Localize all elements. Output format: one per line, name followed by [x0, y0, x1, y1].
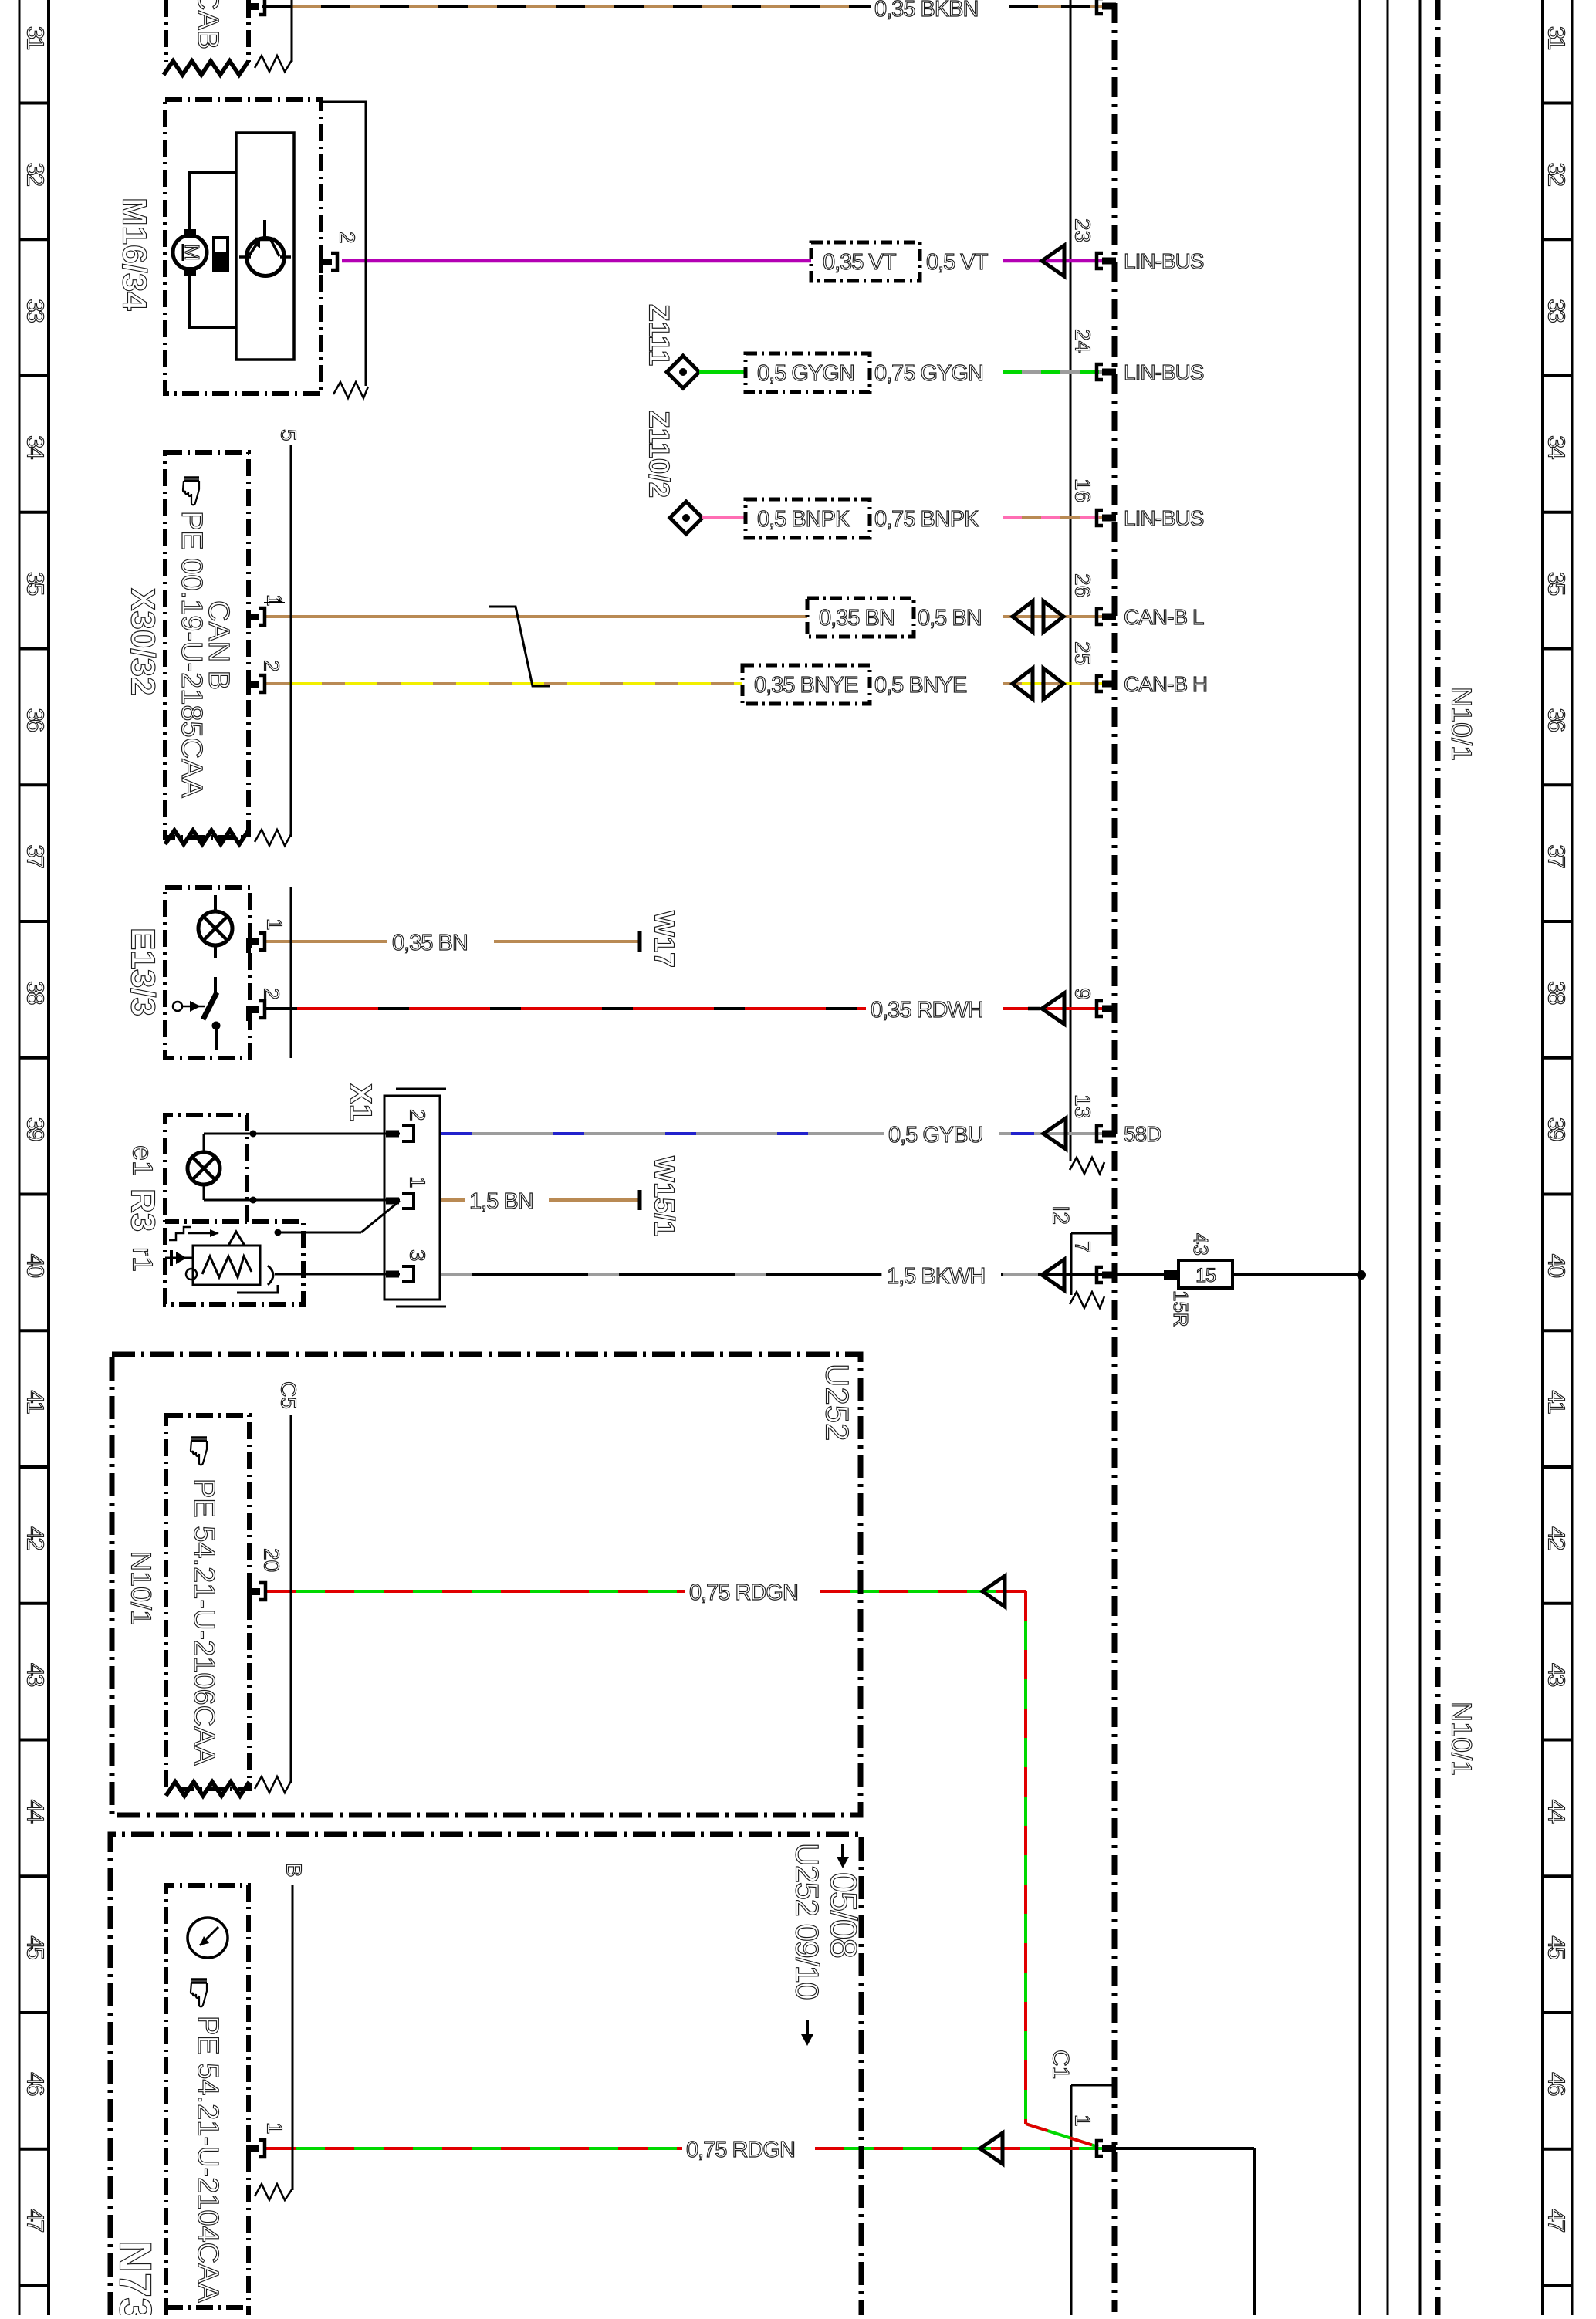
svg-text:42: 42: [1544, 1526, 1571, 1550]
svg-text:58D: 58D: [1124, 1122, 1161, 1146]
svg-text:34: 34: [1544, 435, 1571, 459]
svg-text:31: 31: [1544, 26, 1571, 49]
svg-text:N10/1: N10/1: [1446, 1702, 1478, 1776]
svg-text:44: 44: [1544, 1800, 1571, 1824]
svg-text:26: 26: [1071, 573, 1095, 597]
svg-text:1: 1: [406, 1176, 430, 1188]
svg-text:40: 40: [22, 1254, 49, 1278]
svg-text:33: 33: [1544, 299, 1571, 322]
svg-text:N73: N73: [110, 2240, 161, 2315]
svg-text:44: 44: [22, 1800, 49, 1824]
svg-text:39: 39: [1544, 1117, 1571, 1141]
svg-text:45: 45: [1544, 1935, 1571, 1959]
svg-text:U252: U252: [820, 1364, 856, 1441]
svg-text:R3: R3: [124, 1188, 162, 1232]
svg-text:X1: X1: [343, 1083, 377, 1121]
svg-text:1,5 BKWH: 1,5 BKWH: [887, 1264, 985, 1289]
svg-text:36: 36: [22, 708, 49, 732]
svg-text:W15/1: W15/1: [649, 1156, 681, 1236]
svg-text:CAN B: CAN B: [202, 600, 235, 690]
svg-text:25: 25: [1071, 641, 1095, 665]
svg-text:0,75 BNPK: 0,75 BNPK: [874, 507, 979, 532]
svg-text:0,35 VT: 0,35 VT: [823, 250, 897, 275]
svg-text:35: 35: [1544, 572, 1571, 595]
svg-text:38: 38: [1544, 981, 1571, 1004]
svg-text:43: 43: [1189, 1233, 1212, 1256]
svg-text:37: 37: [22, 844, 49, 867]
svg-text:M16/34: M16/34: [116, 198, 154, 311]
svg-text:40: 40: [1544, 1254, 1571, 1278]
svg-text:42: 42: [22, 1526, 49, 1550]
svg-text:0,35 BN: 0,35 BN: [392, 931, 468, 955]
svg-text:CAN-B L: CAN-B L: [1124, 605, 1204, 629]
svg-text:U252 09/10: U252 09/10: [790, 1843, 826, 1999]
svg-text:45: 45: [22, 1935, 49, 1959]
svg-text:34: 34: [22, 435, 49, 459]
svg-text:CAN-B H: CAN-B H: [1124, 672, 1207, 696]
svg-text:20: 20: [260, 1548, 284, 1572]
svg-text:41: 41: [1544, 1390, 1571, 1413]
svg-text:32: 32: [1544, 163, 1571, 186]
svg-text:PE 54.21-U-2106CAA: PE 54.21-U-2106CAA: [188, 1479, 220, 1766]
svg-text:1: 1: [263, 918, 287, 931]
svg-text:33: 33: [22, 299, 49, 322]
svg-text:PE 54.21-U-2104CAA: PE 54.21-U-2104CAA: [191, 2016, 224, 2303]
svg-text:1: 1: [263, 2122, 287, 2135]
svg-text:5: 5: [277, 429, 301, 441]
svg-text:0,75 RDGN: 0,75 RDGN: [689, 1580, 798, 1605]
svg-text:N10/1: N10/1: [1446, 687, 1478, 761]
svg-text:0,35 RDWH: 0,35 RDWH: [871, 998, 983, 1023]
svg-text:41: 41: [22, 1390, 49, 1413]
svg-text:0,75 RDGN: 0,75 RDGN: [686, 2138, 795, 2162]
svg-text:0,35 BN: 0,35 BN: [819, 606, 894, 630]
svg-text:05/08: 05/08: [823, 1872, 864, 1957]
svg-text:r1: r1: [127, 1247, 159, 1272]
svg-text:1: 1: [263, 594, 287, 607]
svg-text:38: 38: [22, 981, 49, 1004]
svg-text:16: 16: [1071, 478, 1095, 502]
svg-text:47: 47: [22, 2209, 49, 2232]
svg-text:0,5 BNYE: 0,5 BNYE: [874, 673, 967, 698]
svg-text:X30/32: X30/32: [124, 588, 162, 695]
svg-text:0,35 BNYE: 0,35 BNYE: [754, 673, 858, 698]
svg-text:46: 46: [22, 2072, 49, 2095]
svg-text:46: 46: [1544, 2072, 1571, 2095]
svg-text:1: 1: [1071, 2114, 1095, 2127]
svg-text:3: 3: [406, 1249, 430, 1262]
svg-text:2: 2: [336, 232, 360, 244]
svg-text:2: 2: [260, 988, 284, 1000]
svg-text:2: 2: [406, 1109, 430, 1121]
svg-text:24: 24: [1071, 329, 1095, 353]
svg-text:2: 2: [260, 660, 284, 672]
svg-text:0,5 BNPK: 0,5 BNPK: [757, 507, 850, 532]
svg-text:W17: W17: [649, 911, 681, 968]
svg-text:43: 43: [22, 1663, 49, 1686]
svg-text:39: 39: [22, 1117, 49, 1141]
svg-text:0,5 GYBU: 0,5 GYBU: [888, 1123, 983, 1148]
svg-text:0,75 GYGN: 0,75 GYGN: [874, 361, 983, 386]
svg-text:N10/1: N10/1: [126, 1551, 157, 1625]
svg-text:LIN-BUS: LIN-BUS: [1124, 249, 1204, 273]
svg-text:0,35 BKBN: 0,35 BKBN: [874, 0, 978, 22]
svg-text:36: 36: [1544, 708, 1571, 732]
svg-text:0,5 BN: 0,5 BN: [918, 606, 982, 630]
svg-text:Z111: Z111: [644, 304, 675, 366]
svg-text:32: 32: [22, 163, 49, 186]
svg-text:LIN-BUS: LIN-BUS: [1124, 360, 1204, 384]
svg-text:I2: I2: [1048, 1205, 1074, 1225]
svg-text:35: 35: [22, 572, 49, 595]
svg-text:7: 7: [1071, 1241, 1095, 1253]
svg-text:CAB: CAB: [191, 0, 224, 49]
svg-text:9: 9: [1071, 988, 1095, 1000]
svg-text:e1: e1: [127, 1145, 159, 1176]
svg-text:C5: C5: [277, 1381, 301, 1409]
svg-text:15: 15: [1195, 1265, 1216, 1286]
svg-text:LIN-BUS: LIN-BUS: [1124, 506, 1204, 530]
svg-text:0,5 VT: 0,5 VT: [926, 250, 989, 275]
svg-text:47: 47: [1544, 2209, 1571, 2232]
svg-text:31: 31: [22, 26, 49, 49]
svg-text:C1: C1: [1048, 2050, 1074, 2079]
svg-text:1,5 BN: 1,5 BN: [469, 1189, 533, 1214]
svg-text:Z110/2: Z110/2: [644, 411, 675, 498]
svg-text:E13/3: E13/3: [124, 928, 162, 1016]
svg-text:37: 37: [1544, 844, 1571, 867]
svg-text:0,5 GYGN: 0,5 GYGN: [757, 361, 854, 386]
svg-text:23: 23: [1071, 218, 1095, 242]
svg-text:13: 13: [1071, 1094, 1095, 1118]
svg-text:B: B: [282, 1863, 306, 1878]
svg-text:43: 43: [1544, 1663, 1571, 1686]
svg-text:15R: 15R: [1169, 1290, 1192, 1327]
